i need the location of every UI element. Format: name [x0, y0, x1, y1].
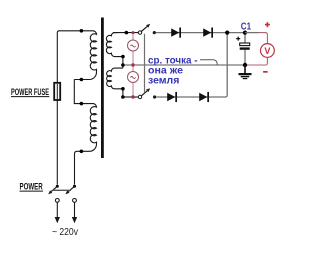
callout line from note to center tap rail	[200, 60, 217, 65]
voltmeter V1	[261, 44, 275, 58]
wire: output to voltmeter plus	[245, 32, 259, 34]
label - (red)	[263, 71, 268, 73]
node: rectifier outputs junction	[225, 30, 229, 34]
fuse F1 POWER FUSE	[54, 83, 60, 100]
node: C1 bottom / ground junction	[243, 63, 247, 67]
wire: mains left vertical + top horizontal to primary	[57, 31, 90, 185]
diode D2	[203, 28, 213, 38]
wire: gang line between switches	[144, 34, 146, 93]
transformer T1 primary winding lower	[77, 104, 97, 152]
switch S3 (bottom secondary)	[138, 88, 156, 99]
switch S1 pole A (mains)	[48, 185, 59, 203]
wire: center tap stub lower	[122, 89, 124, 97]
AC source symbol upper half-winding	[128, 40, 139, 51]
transformer T1 secondary winding upper	[106, 33, 122, 57]
label + (red)	[265, 22, 270, 27]
diode D3	[167, 92, 177, 102]
wire: center tap stub upper	[122, 57, 124, 69]
ground	[239, 65, 252, 79]
diode D4	[199, 92, 209, 102]
diode D1	[171, 28, 181, 38]
switch S2 (top secondary)	[138, 24, 156, 35]
svg-text:POWER FUSE: POWER FUSE	[11, 87, 49, 97]
wire: center tap rail to ground node	[123, 64, 245, 66]
transformer T1 secondary winding lower	[107, 68, 123, 89]
mains arrow B	[72, 217, 77, 223]
wire: plug lead B	[74, 202, 76, 217]
svg-text:POWER: POWER	[20, 182, 44, 192]
AC source symbol lower half-winding	[128, 72, 139, 83]
wire: secondary bottom lead	[123, 96, 138, 98]
wire: secondary top lead	[113, 32, 138, 34]
node: top output node at capacitor	[243, 30, 247, 34]
junction dots: secondary winding pins	[121, 31, 128, 99]
switch S1 mechanical link	[53, 189, 71, 191]
mains arrow A	[55, 217, 60, 223]
svg-text:земля: земля	[148, 74, 179, 86]
wire: primary lower end down to switch pole B	[75, 151, 78, 184]
wire: top row from switch to rectifier output	[156, 32, 245, 34]
switch S1 pole B (mains)	[65, 185, 76, 203]
capacitor C1	[236, 33, 250, 65]
svg-text:C1: C1	[241, 21, 252, 32]
wire: bottom row from switch through diodes and riser	[156, 33, 227, 97]
equivalent source overlay: red line through half-windings	[132, 33, 134, 97]
wire: voltmeter minus to ground node	[245, 57, 267, 65]
transformer T1 core	[101, 18, 104, 159]
wire: plug lead A	[56, 202, 58, 217]
svg-text:V: V	[264, 46, 270, 56]
wire: primary tap jog	[74, 80, 90, 104]
transformer T1 primary winding upper	[74, 31, 96, 80]
svg-text:~ 220v: ~ 220v	[52, 227, 78, 238]
junction dots: primary winding pins	[80, 29, 84, 153]
node: red junction dots on overlay	[131, 31, 134, 99]
